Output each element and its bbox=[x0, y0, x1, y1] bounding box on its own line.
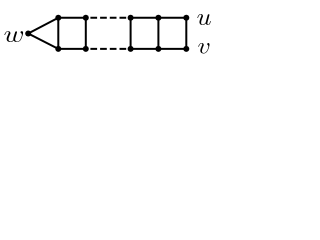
background bbox=[0, 0, 215, 82]
node bottom col3 bbox=[128, 46, 134, 52]
node bottom col1 bbox=[55, 46, 61, 52]
node u vertex top col5 bbox=[183, 15, 189, 21]
wire: edge w to top-left vertex bbox=[28, 18, 58, 34]
wire: bottom edge col1-col2 bbox=[58, 48, 86, 50]
wire: bottom edge col3-col4 bbox=[131, 48, 159, 50]
node w vertex dot bbox=[25, 31, 31, 37]
wire: rung col5 bbox=[185, 18, 187, 49]
wire: rung col3 bbox=[130, 18, 132, 49]
wire: bottom dashed edge col2-col3 bbox=[90, 48, 126, 50]
wire: rung col4 bbox=[157, 18, 159, 49]
node bottom col2 bbox=[83, 46, 89, 52]
node bottom col4 bbox=[155, 46, 161, 52]
wire: top edge col4-col5 bbox=[158, 17, 186, 19]
wire: top edge col1-col2 bbox=[58, 17, 86, 19]
node top col4 bbox=[155, 15, 161, 21]
wire: edge w to bottom-left vertex bbox=[28, 34, 58, 49]
wire: bottom edge col4-col5 bbox=[158, 48, 186, 50]
wire: rung col1 bbox=[57, 18, 59, 49]
node top col3 bbox=[128, 15, 134, 21]
node top col2 bbox=[83, 15, 89, 21]
wire: top edge col3-col4 bbox=[131, 17, 159, 19]
label u bbox=[197, 14, 210, 25]
wire: rung col2 bbox=[85, 18, 87, 49]
label v bbox=[198, 43, 209, 54]
node v vertex bottom col5 bbox=[183, 46, 189, 52]
node top col1 bbox=[55, 15, 61, 21]
label w bbox=[4, 31, 23, 42]
wire: top dashed edge col2-col3 bbox=[90, 17, 126, 19]
